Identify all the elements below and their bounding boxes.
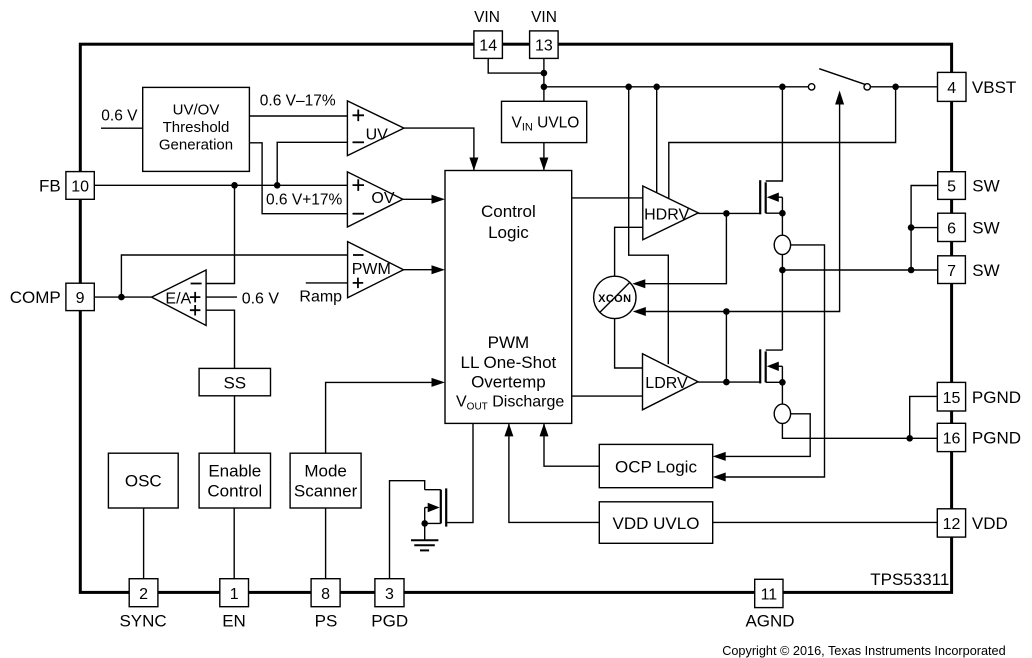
wire Control Logic to HDRV input — [572, 197, 643, 199]
junction HDRV gate sense — [723, 210, 730, 217]
svg-text:Ramp: Ramp — [299, 289, 342, 306]
arrow into Control Logic top (UV) — [469, 158, 478, 171]
wire VIN supply into HDRV driver — [656, 87, 658, 193]
arrow into OCP Logic (low-side sense) — [713, 452, 726, 461]
svg-text:OV: OV — [371, 190, 394, 207]
svg-text:COMP: COMP — [10, 288, 61, 307]
transistor Q1 high-side NMOS — [760, 87, 782, 236]
svg-text:TPS53311: TPS53311 — [870, 570, 949, 589]
junction VBST — [892, 84, 899, 91]
wire threshold box to UV+ input — [249, 115, 347, 117]
wire 0.6V ref to threshold box — [101, 127, 143, 129]
svg-text:PWM: PWM — [352, 261, 391, 278]
junction SW pin 6 — [908, 224, 915, 231]
wire VIN rail to bootstrap switch — [544, 86, 809, 88]
svg-text:Overtemp: Overtemp — [471, 373, 546, 392]
wire Mode Scanner to Control Logic left — [326, 382, 432, 453]
wire SW pin 5 tie — [911, 186, 938, 271]
pin 13 VIN — [530, 31, 559, 59]
junction FB/E-A — [231, 182, 238, 189]
wire UV output to Control Logic top — [404, 128, 474, 170]
pin 6 SW — [938, 213, 966, 241]
wire low-side current sense to OCP Logic — [716, 414, 810, 457]
pin 5 SW — [938, 172, 966, 200]
arrow into XCON (LDRV gate) — [633, 307, 646, 316]
svg-text:HDRV: HDRV — [644, 206, 689, 223]
comparator UV — [347, 101, 404, 156]
svg-text:8: 8 — [321, 586, 330, 603]
svg-text:LL One-Shot: LL One-Shot — [461, 353, 557, 372]
pin 7 SW — [938, 256, 966, 284]
svg-text:OCP Logic: OCP Logic — [615, 458, 697, 477]
svg-text:9: 9 — [76, 290, 85, 307]
svg-text:0.6 V: 0.6 V — [101, 108, 138, 125]
svg-text:AGND: AGND — [745, 611, 794, 630]
wire VDD UVLO output to Control Logic bottom — [509, 424, 599, 522]
wire SW pin 6 tie — [911, 227, 938, 229]
wire SS to Enable Control — [234, 396, 236, 453]
wire Mode Scanner to PS pin 8 — [325, 508, 327, 579]
wire VIN pin 14 down and over — [488, 58, 544, 73]
wire VIN supply into LDRV driver — [629, 87, 669, 364]
junction VIN rail / HDRV supply — [653, 84, 660, 91]
block VIN UVLO — [502, 101, 587, 142]
svg-text:1: 1 — [230, 586, 239, 603]
svg-text:PGD: PGD — [371, 611, 408, 630]
wire FB junction down to E/A inverting input — [206, 185, 234, 283]
svg-text:7: 7 — [947, 263, 956, 280]
svg-text:OSC: OSC — [125, 472, 162, 491]
wire XCON to HDRV lower input — [615, 227, 643, 276]
svg-text:15: 15 — [943, 390, 961, 407]
wire FB junction up to UV- input — [277, 142, 347, 185]
pin 8 PS — [311, 579, 340, 607]
svg-text:FB: FB — [39, 177, 61, 196]
svg-text:5: 5 — [947, 179, 956, 196]
block Control Logic / PWM LL One-Shot Overtemp Vout Discharge — [445, 171, 572, 424]
IC boundary border — [80, 44, 951, 592]
block OSC — [108, 453, 178, 508]
svg-text:PS: PS — [315, 611, 338, 630]
wire PGD pin 3 up to FET drain — [390, 481, 425, 579]
svg-text:Logic: Logic — [488, 223, 529, 242]
junction pins 13/14 — [541, 70, 548, 77]
junction VIN rail — [541, 84, 548, 91]
pin 9 COMP — [66, 283, 94, 310]
svg-text:11: 11 — [761, 587, 778, 604]
wire XCON to LDRV upper input — [615, 319, 643, 368]
pin 1 EN — [220, 579, 249, 607]
pin 3 PGD — [375, 579, 404, 607]
wire Q1 source to SW node — [781, 255, 783, 351]
comparator OV — [347, 172, 402, 227]
svg-text:13: 13 — [535, 38, 553, 55]
wire E/A lower + input to SS — [206, 310, 234, 368]
wire switch control up to bootstrap switch — [726, 104, 839, 312]
ground — [411, 540, 438, 550]
wire VIN pin 13 down to VIN UVLO — [543, 58, 545, 101]
pin 4 VBST — [938, 72, 967, 101]
svg-text:E/A: E/A — [165, 290, 191, 307]
svg-text:EN: EN — [222, 611, 246, 630]
block OCP Logic — [599, 444, 712, 487]
wire FB pin 10 to OV+ input — [94, 184, 347, 186]
arrow into XCON (HDRV gate) — [632, 279, 645, 288]
wire HDRV gate sense down into XCON — [636, 213, 726, 283]
wire PGND pin 15 tie — [910, 396, 938, 438]
pin 10 FB — [66, 172, 94, 200]
svg-text:SYNC: SYNC — [119, 611, 166, 630]
svg-text:Control: Control — [207, 482, 262, 501]
svg-text:SW: SW — [972, 177, 999, 196]
svg-text:VIN: VIN — [474, 9, 500, 26]
svg-text:12: 12 — [943, 516, 961, 533]
junction LDRV gate / switch control — [723, 308, 730, 315]
block Enable Control — [199, 453, 270, 508]
block UV/OV Threshold Generation — [143, 87, 250, 171]
svg-text:XCON: XCON — [598, 293, 631, 305]
current sense high-side — [774, 235, 790, 254]
junction LDRV gate sense — [723, 379, 730, 386]
comparator PWM — [348, 242, 404, 298]
arrow into OCP Logic (high-side sense) — [713, 473, 726, 482]
wire high-side current sense to OCP Logic — [716, 245, 825, 477]
block SS — [199, 368, 270, 395]
svg-text:PGND: PGND — [972, 429, 1021, 448]
svg-text:0.6 V: 0.6 V — [242, 290, 280, 307]
svg-text:VIN: VIN — [531, 9, 557, 26]
junction Q2 source — [779, 379, 786, 386]
svg-text:LDRV: LDRV — [645, 375, 688, 392]
wire E/A output to COMP pin 9 — [94, 296, 151, 298]
wire OSC to SYNC pin 2 — [143, 508, 145, 579]
wire threshold box to OV- input — [249, 143, 347, 214]
svg-text:Control: Control — [481, 202, 536, 221]
switch S1 bootstrap (open) — [808, 69, 870, 90]
svg-text:PWM: PWM — [488, 333, 530, 352]
pin 16 PGND — [937, 423, 965, 451]
arrow into Control Logic top (VIN UVLO) — [539, 158, 548, 171]
current sense low-side — [774, 404, 790, 423]
svg-text:0.6 V+17%: 0.6 V+17% — [266, 191, 342, 208]
wire Control Logic to PGD FET gate — [446, 423, 473, 522]
svg-text:UV: UV — [366, 126, 389, 143]
pin 2 SYNC — [129, 579, 158, 607]
wire PWM output to Control Logic left — [404, 269, 433, 271]
wire SW node to SW pins — [782, 269, 937, 271]
arrow into Control Logic left (PWM) — [432, 265, 446, 274]
pin 15 PGND — [937, 382, 965, 411]
wire LDRV output to Q2 gate — [698, 381, 760, 383]
wire HDRV output to Q1 gate — [698, 212, 760, 214]
junction SW node — [779, 267, 786, 274]
svg-text:0.6 V–17%: 0.6 V–17% — [260, 93, 336, 110]
pin 14 VIN — [474, 31, 503, 59]
svg-text:14: 14 — [479, 38, 497, 55]
wire COMP up and right to PWM- input — [121, 255, 347, 297]
arrow into Control Logic left (Mode) — [432, 378, 446, 387]
wire Enable Control to EN pin 1 — [233, 508, 235, 579]
svg-text:6: 6 — [947, 221, 956, 238]
wire OV output to Control Logic left — [403, 198, 432, 200]
wire OCP Logic output to Control Logic bottom — [544, 424, 599, 466]
pin 12 VDD — [937, 509, 965, 537]
junction COMP — [118, 294, 125, 301]
driver LDRV — [643, 354, 699, 410]
junction Q3 source — [421, 520, 428, 527]
svg-text:Scanner: Scanner — [294, 482, 358, 501]
svg-text:2: 2 — [139, 586, 148, 603]
wire Q2 source to PGND — [782, 424, 937, 439]
wire LDRV gate sense up to XCON and switch driver — [637, 312, 727, 383]
junction PGND — [906, 435, 913, 442]
svg-text:SW: SW — [972, 219, 999, 238]
driver HDRV — [643, 186, 699, 240]
svg-text:4: 4 — [947, 80, 956, 97]
arrow into Control Logic left (OV) — [432, 195, 446, 204]
svg-text:Generation: Generation — [159, 137, 233, 154]
svg-text:Threshold: Threshold — [163, 119, 230, 136]
svg-text:PGND: PGND — [972, 388, 1021, 407]
wire switch to VBST pin 4 — [870, 86, 937, 88]
svg-text:Enable: Enable — [208, 462, 261, 481]
svg-text:VDD: VDD — [972, 514, 1008, 533]
block VDD UVLO — [599, 502, 712, 544]
svg-text:3: 3 — [385, 586, 394, 603]
arrow into Control Logic bottom (VDD UVLO) — [504, 423, 513, 436]
svg-text:VIN UVLO: VIN UVLO — [512, 115, 580, 134]
svg-text:UV/OV: UV/OV — [173, 102, 220, 119]
junction FB/UV- — [274, 182, 281, 189]
junction VIN rail / LDRV supply — [625, 84, 632, 91]
svg-text:SW: SW — [972, 261, 999, 280]
svg-text:SS: SS — [223, 374, 246, 393]
transistor Q3 power-good FET (mirrored NMOS) — [425, 488, 447, 540]
wire 0.6V ref to E/A middle + input — [206, 296, 237, 298]
svg-text:Copyright © 2016, Texas Instru: Copyright © 2016, Texas Instruments Inco… — [722, 644, 1005, 658]
junction VIN rail / high-side FET drain — [779, 84, 786, 91]
svg-text:16: 16 — [943, 431, 961, 448]
wire VIN UVLO to Control Logic top — [543, 143, 545, 170]
arrow to bootstrap switch — [835, 91, 844, 105]
svg-text:Mode: Mode — [304, 462, 347, 481]
wire VDD UVLO to VDD pin 12 — [713, 521, 938, 523]
svg-text:10: 10 — [71, 179, 89, 196]
block Mode Scanner — [290, 453, 361, 508]
arrow into Control Logic bottom (OCP) — [540, 423, 549, 436]
wire VBST bootstrap into HDRV driver — [669, 87, 896, 198]
wire Ramp to PWM+ input — [306, 282, 348, 284]
block XCON (cross-conduction protection) — [594, 276, 636, 318]
junction SW pin 7 — [908, 267, 915, 274]
pin 11 AGND — [755, 579, 783, 607]
junction Q1 source — [779, 210, 786, 217]
svg-text:VBST: VBST — [972, 78, 1016, 97]
op-amp E/A (error amplifier, output points left) — [152, 270, 207, 326]
svg-text:VDD UVLO: VDD UVLO — [613, 514, 700, 533]
wire Control Logic to LDRV input — [572, 395, 643, 397]
transistor Q2 low-side NMOS — [760, 349, 782, 404]
